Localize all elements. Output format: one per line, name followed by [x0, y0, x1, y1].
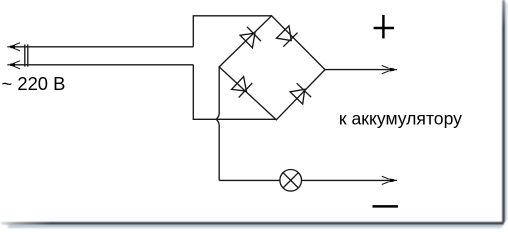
svg-text:~ 220 В: ~ 220 В [2, 73, 66, 94]
svg-text:к аккумулятору: к аккумулятору [339, 109, 462, 129]
